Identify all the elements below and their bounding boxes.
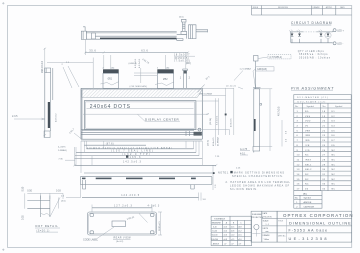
leader 0.1 typ [226, 85, 243, 89]
svg-text:±0.5: ±0.5 [231, 227, 234, 229]
svg-text:±1.2: ±1.2 [238, 231, 241, 233]
svg-text:VSS: VSS [305, 116, 311, 118]
right extension lines from front view [196, 88, 234, 146]
side view bottom labels [240, 148, 250, 156]
svg-text:16: 16 [297, 184, 301, 186]
svg-text:±0.8: ±0.8 [238, 227, 241, 229]
svg-text:/CE: /CE [305, 145, 310, 147]
svg-text:CIRCUIT DIAGRAM: CIRCUIT DIAGRAM [291, 21, 332, 25]
svg-text:34: 34 [322, 189, 326, 191]
svg-text:(R0.5) 2MAX: (R0.5) 2MAX [200, 92, 213, 95]
corner tick top-left [2, 2, 5, 5]
svg-text:23: 23 [322, 135, 326, 137]
terminal LED+ [333, 29, 344, 33]
top side view: right bolt [179, 17, 187, 35]
top side view: right tab with arm [177, 25, 208, 41]
svg-text:DWG No.: DWG No. [278, 236, 286, 238]
svg-text:10-50: 10-50 [212, 231, 217, 233]
svg-text:CODE LABEL: CODE LABEL [83, 239, 99, 242]
svg-text:NC: NC [332, 164, 336, 166]
pin assignment title [291, 86, 334, 90]
left side profile view [44, 68, 57, 138]
rotated dim texts upper cluster [210, 115, 219, 125]
svg-text:(6.5): (6.5) [179, 17, 184, 19]
svg-text:D4: D4 [332, 126, 336, 128]
svg-text:Symbol: Symbol [304, 198, 312, 200]
svg-text:(30): (30) [166, 68, 170, 70]
svg-text:NOTE1.: NOTE1. [218, 172, 230, 175]
svg-text:NC: NC [332, 189, 336, 191]
svg-text:NC: NC [305, 174, 309, 176]
svg-text:29: 29 [322, 164, 326, 166]
2-3.5 label [12, 115, 45, 120]
svg-text:4-.0675: 4-.0675 [58, 147, 66, 149]
svg-text:TOLERANCE: TOLERANCE [214, 218, 226, 221]
svg-text:26: 26 [322, 150, 326, 152]
svg-text:0.02: 0.02 [22, 215, 25, 220]
corner pad BR [150, 231, 154, 234]
svg-text:124.2±0.5: 124.2±0.5 [121, 194, 140, 197]
alignment hole circle [198, 128, 201, 131]
bottom-left corner radius label [69, 128, 81, 139]
svg-text:DRAWN: DRAWN [263, 234, 270, 237]
svg-text:UE-312358: UE-312358 [289, 236, 329, 241]
bolt pin front view [180, 69, 191, 89]
svg-text:ANGLE: ANGLE [213, 242, 220, 245]
svg-text:NC: NC [332, 174, 336, 176]
title block main [277, 211, 353, 242]
LED D2 [297, 30, 301, 43]
left foot below [83, 185, 86, 189]
terminal ledge lines [81, 129, 202, 134]
boss tab 2 (dark band + box) [155, 55, 174, 89]
front bezel hatch band [82, 90, 203, 98]
svg-text:NC: NC [332, 155, 336, 157]
top side view: left ear [81, 27, 86, 40]
dark dash 2 [126, 178, 143, 180]
svg-text:4-0.3±0.1: 4-0.3±0.1 [139, 58, 141, 68]
svg-text:D3: D3 [332, 121, 336, 123]
svg-text:SILICON RESIN.: SILICON RESIN. [230, 188, 258, 191]
svg-text:VDD: VDD [305, 121, 311, 123]
LED D4 circled [325, 32, 331, 43]
svg-text:30: 30 [322, 169, 326, 171]
rear view texts [83, 227, 131, 243]
svg-text:100-200: 100-200 [211, 239, 218, 241]
circuit diagram title [291, 21, 332, 25]
svg-text:2: 2 [103, 68, 104, 70]
display window [84, 101, 196, 130]
svg-text:35.6: 35.6 [89, 48, 96, 52]
svg-text:19: 19 [322, 116, 326, 118]
svg-text:LED -: LED - [337, 43, 343, 46]
dark dash 4 [191, 178, 196, 180]
title block left cells [262, 211, 277, 242]
svg-text:MEASURE: MEASURE [212, 222, 222, 225]
svg-text:±2.0: ±2.0 [238, 239, 241, 241]
svg-text:ANODE: ANODE [304, 201, 312, 204]
LED D1 [289, 30, 293, 43]
leader 0.4MAX [234, 68, 251, 81]
svg-text:31: 31 [322, 174, 326, 176]
front view outer body [81, 88, 202, 141]
corner pad BL [90, 231, 94, 234]
svg-text:240x64 DOTS: 240x64 DOTS [90, 104, 131, 110]
LT PWB-2 label [258, 55, 291, 60]
svg-text:268.2±10.0: 268.2±10.0 [41, 60, 44, 73]
tolerance table [211, 216, 252, 245]
svg-text:2-3.5: 2-3.5 [12, 115, 18, 118]
svg-text:VEE: VEE [305, 130, 311, 132]
svg-text:DV2-SLAVE (C2): DV2-SLAVE (C2) [298, 100, 327, 103]
notes text [218, 171, 291, 191]
labels right of tab2 [174, 54, 195, 66]
svg-text:NC: NC [305, 184, 309, 186]
svg-text:25: 25 [322, 145, 326, 147]
svg-text:0.03: 0.03 [56, 190, 61, 193]
svg-text:DATE: DATE [340, 6, 345, 9]
left inner feet [82, 180, 85, 185]
dim row (67.6) [84, 143, 146, 146]
pin sub table backlight [294, 191, 322, 209]
dark dash 0 [82, 178, 86, 180]
svg-text:1 : 1: 1 : 1 [266, 224, 270, 226]
svg-text:NC: NC [305, 155, 309, 157]
svg-text:40.4±0.5: 40.4±0.5 [213, 137, 215, 146]
rear view dims 127.2 [92, 204, 160, 212]
svg-text:18: 18 [322, 111, 326, 113]
LED D3 [319, 30, 323, 43]
svg-text:D0: D0 [305, 189, 309, 191]
svg-text:12: 12 [297, 164, 301, 166]
svg-text:Feb.19.95: Feb.19.95 [264, 217, 272, 219]
side view height dim 49.7 [260, 89, 288, 151]
svg-text:±1.0: ±1.0 [231, 235, 234, 237]
svg-text:32: 32 [322, 179, 326, 181]
svg-text:UNITS: UNITS [263, 228, 269, 230]
svg-text:1.15: 1.15 [215, 185, 217, 189]
svg-text:(30): (30) [111, 68, 115, 70]
dot detail grid [27, 196, 60, 218]
svg-text:NC: NC [332, 160, 336, 162]
svg-text:6-0.2±0.1: 6-0.2±0.1 [217, 115, 219, 125]
svg-text:DRAWN: DRAWN [313, 6, 320, 9]
svg-text:ISSUE: ISSUE [253, 7, 259, 9]
svg-text:SCALE: SCALE [263, 220, 270, 223]
dim row 132 [75, 153, 220, 158]
svg-text:63.6: 63.6 [141, 48, 148, 52]
svg-text:mm: mm [266, 231, 269, 233]
svg-text:/RST: /RST [305, 160, 312, 162]
svg-text:D7: D7 [332, 140, 336, 142]
svg-text:49.7±0.5: 49.7±0.5 [278, 106, 281, 116]
svg-text:50-100: 50-100 [212, 235, 218, 237]
svg-text:No.: No. [295, 198, 299, 200]
right feet [191, 185, 194, 189]
dot detail title [35, 224, 60, 232]
svg-text:/WR: /WR [305, 135, 310, 137]
svg-text:CATHODE: CATHODE [304, 205, 315, 208]
svg-text:27: 27 [322, 155, 326, 157]
svg-text:±0.6: ±0.6 [224, 235, 227, 237]
svg-text:(20.3): (20.3) [208, 140, 210, 146]
svg-text:±1.5: ±1.5 [231, 239, 234, 241]
dim row 135.3 [58, 147, 202, 165]
svg-text:D5: D5 [332, 130, 336, 132]
svg-text:±1°: ±1° [224, 243, 227, 245]
projection cell [251, 211, 264, 242]
svg-text:Symbol: Symbol [335, 106, 343, 108]
svg-text:(S=20:1): (S=20:1) [37, 229, 50, 232]
svg-text:0.50: 0.50 [27, 190, 32, 193]
svg-text:SEL2: SEL2 [305, 169, 312, 171]
right side profile view [253, 88, 262, 153]
svg-text:D6: D6 [332, 135, 336, 137]
svg-text:SEL1: SEL1 [305, 164, 312, 166]
small dim 3.4 top left of module [47, 58, 93, 89]
dot detail dims top [22, 186, 64, 220]
dim row 139.4 with mark [84, 172, 215, 174]
svg-text:22: 22 [322, 130, 326, 132]
svg-text:D1: D1 [332, 111, 336, 113]
svg-text:28: 28 [322, 160, 326, 162]
svg-text:Symbol: Symbol [307, 106, 315, 108]
svg-text:(LT PWB-2): (LT PWB-2) [270, 56, 283, 59]
corner tick bottom-left [2, 249, 5, 252]
svg-text:/RD: /RD [305, 140, 310, 142]
pwb block [92, 33, 96, 39]
svg-text:43.5±0.5: 43.5±0.5 [231, 118, 233, 127]
svg-text:20: 20 [322, 121, 326, 123]
svg-text:Ø51: Ø51 [108, 77, 113, 80]
svg-text:(BL): (BL) [303, 193, 307, 195]
extension lines below front view [81, 141, 213, 190]
dim 124.2 [81, 185, 199, 198]
svg-text:Ø52: Ø52 [163, 78, 168, 81]
revision table [252, 6, 352, 16]
svg-text:15: 15 [297, 179, 301, 181]
svg-text:NC: NC [332, 179, 336, 181]
svg-text:33: 33 [322, 184, 326, 186]
svg-text:4-0.5±0.1: 4-0.5±0.1 [135, 58, 137, 68]
svg-text:35165/AB : 10chips: 35165/AB : 10chips [299, 57, 331, 60]
svg-text:13: 13 [297, 169, 301, 171]
svg-text:(0.1)um: (0.1)um [226, 85, 236, 87]
svg-text:127.2±0.3: 127.2±0.3 [114, 204, 133, 207]
svg-text:OPTREX CORPORATION: OPTREX CORPORATION [283, 213, 354, 218]
svg-text:142.5±0.3: 142.5±0.3 [123, 160, 142, 163]
corner pad TR [150, 214, 154, 217]
right foot [177, 34, 187, 40]
dim row seal line [58, 149, 196, 153]
svg-text:0-10: 0-10 [213, 227, 217, 229]
svg-text:2-3MAX): 2-3MAX) [58, 149, 67, 152]
svg-text:(20.34): (20.34) [210, 118, 212, 125]
svg-text:38.85±0.5: 38.85±0.5 [159, 221, 161, 231]
pin table rows [294, 111, 351, 191]
svg-text:D2: D2 [332, 116, 336, 118]
dim row active area [58, 146, 194, 149]
svg-text:44.7±0.2: 44.7±0.2 [55, 113, 57, 122]
rear view body [88, 212, 157, 235]
svg-text:NC: NC [305, 179, 309, 181]
svg-text:NC: NC [332, 150, 336, 152]
rotated dim texts lower cluster [208, 136, 220, 146]
svg-text:FG: FG [305, 111, 309, 113]
svg-text:±0.3: ±0.3 [224, 227, 227, 229]
svg-text:No.: No. [323, 106, 327, 108]
svg-text:PIN ASSIGNMENT: PIN ASSIGNMENT [291, 86, 334, 90]
display centerline [83, 114, 209, 115]
corner pad TL [90, 214, 94, 217]
dark bottom strip [100, 38, 177, 39]
left overall height dim 268.2 [41, 48, 46, 137]
terminal LED- [333, 42, 343, 46]
svg-text:±0.8: ±0.8 [231, 231, 234, 233]
svg-text:±0.8: ±0.8 [224, 239, 227, 241]
svg-text:(S=1:2): (S=1:2) [116, 241, 124, 243]
svg-text:NC: NC [332, 169, 336, 171]
svg-text:APPRO: APPRO [326, 6, 333, 9]
svg-text:FS: FS [332, 145, 336, 147]
svg-text:SCALE AND: SCALE AND [252, 213, 263, 216]
svg-text:4-3±0.3: 4-3±0.3 [148, 204, 160, 207]
svg-text:24: 24 [322, 140, 326, 142]
silicon resin dark area [186, 131, 202, 136]
svg-text:REVISIONS: REVISIONS [278, 7, 289, 9]
svg-text:17: 17 [297, 189, 301, 191]
circuit rails [290, 31, 334, 43]
labels below bar [61, 193, 206, 203]
DISPLAY CENTER label [138, 114, 180, 121]
top side view: main bar [86, 32, 176, 40]
connector block on side view top [254, 56, 259, 89]
active area top line [87, 108, 194, 110]
corner label R0.5 2MAX [198, 85, 213, 96]
code label rect [112, 221, 126, 227]
dim row 142.5 [73, 160, 241, 169]
svg-text:(ON MEDIAN): (ON MEDIAN) [130, 85, 148, 88]
svg-text:0.50: 0.50 [22, 186, 25, 191]
svg-text:TITLE: TITLE [278, 221, 284, 223]
svg-text:11: 11 [297, 160, 300, 162]
mark square on dim [225, 114, 233, 128]
svg-text:1.2 0.4MAX: 1.2 0.4MAX [240, 68, 252, 71]
svg-text:SPECIAL CHARACTERISTICS.: SPECIAL CHARACTERISTICS. [232, 175, 284, 178]
svg-text:GRN(LB): GRN(LB) [257, 68, 267, 71]
svg-text:14: 14 [297, 174, 301, 176]
pin table [294, 95, 351, 191]
svg-text:V0: V0 [305, 126, 309, 128]
svg-text:±0.4: ±0.4 [224, 231, 227, 233]
svg-text:±1.5: ±1.5 [238, 235, 241, 237]
svg-text:C/D: C/D [305, 150, 310, 152]
dark dash 1 [96, 178, 112, 180]
dark dash 3 [159, 178, 175, 180]
svg-text:10: 10 [297, 155, 301, 157]
GRN(LB) label [253, 67, 274, 88]
svg-text:21: 21 [322, 126, 326, 128]
svg-text:±3°: ±3° [239, 243, 242, 245]
svg-text:±2°: ±2° [231, 243, 234, 245]
svg-text:DIMENSIONAL OUTLINE: DIMENSIONAL OUTLINE [289, 221, 352, 226]
svg-text:DOT DETAIL: DOT DETAIL [36, 224, 59, 228]
dim line 35.6 / 63.6 above front view [84, 40, 189, 69]
svg-text:DISPLAY CENTER: DISPLAY CENTER [145, 117, 179, 121]
svg-text:No.: No. [295, 106, 299, 108]
svg-text:(Ø2): (Ø2) [186, 62, 191, 65]
boss tab 1 (dark band + box) [100, 55, 119, 89]
svg-text:41.8MAX: 41.8MAX [217, 136, 220, 146]
svg-text:3: 3 [157, 68, 158, 70]
qty of led chips text [298, 50, 331, 60]
rear view right dim 38.85 [158, 212, 162, 235]
svg-text:F-5353 AA base: F-5353 AA base [289, 228, 329, 232]
bottom view bar [80, 177, 212, 189]
svg-text:NC: NC [332, 184, 336, 186]
svg-text:DATE: DATE [263, 212, 268, 215]
svg-text:LED +: LED + [337, 29, 344, 32]
svg-text:REAR VIEW: REAR VIEW [114, 237, 132, 240]
svg-text:(3.5): (3.5) [61, 201, 66, 203]
svg-text:Y.Mom: Y.Mom [264, 239, 270, 241]
R7.1 corner leader [198, 75, 212, 92]
labels between tabs [129, 58, 158, 88]
svg-text:DV1-MASTER (C1): DV1-MASTER (C1) [297, 96, 329, 99]
